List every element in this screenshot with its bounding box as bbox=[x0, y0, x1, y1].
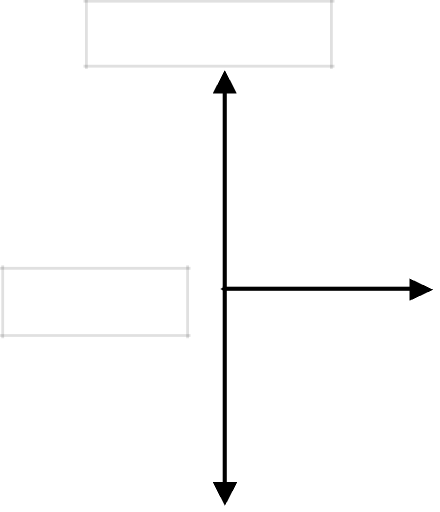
box top (empty light-gray rectangle) bbox=[84, 0, 335, 69]
arrowhead up bbox=[213, 70, 237, 93]
arrowhead down bbox=[213, 482, 238, 506]
arrowhead right bbox=[409, 278, 433, 301]
wire horizontal shaft bbox=[223, 287, 412, 291]
wire tail nub at junction bbox=[220, 287, 223, 290]
box left (empty light-gray rectangle) bbox=[0, 265, 191, 338]
wire vertical shaft bbox=[223, 90, 227, 484]
